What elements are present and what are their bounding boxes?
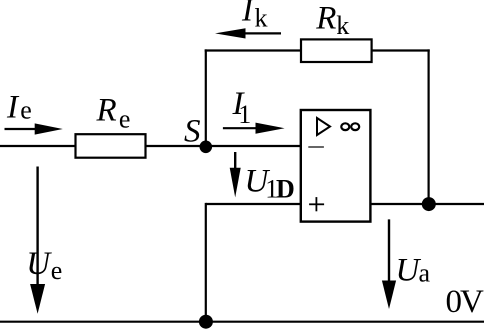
svg-text:a: a [419,259,431,288]
svg-text:1: 1 [238,100,251,129]
svg-text:R: R [96,92,117,128]
svg-text:k: k [336,11,349,40]
svg-text:e: e [20,96,32,125]
svg-text:R: R [315,1,336,37]
svg-text:k: k [255,4,268,33]
svg-text:I: I [6,90,20,126]
svg-text:e: e [51,256,63,285]
svg-text:e: e [119,104,131,133]
svg-text:S: S [184,113,201,149]
svg-text:U: U [26,246,52,282]
svg-text:V: V [460,284,484,320]
svg-text:I: I [241,0,255,29]
svg-text:D: D [276,175,295,204]
